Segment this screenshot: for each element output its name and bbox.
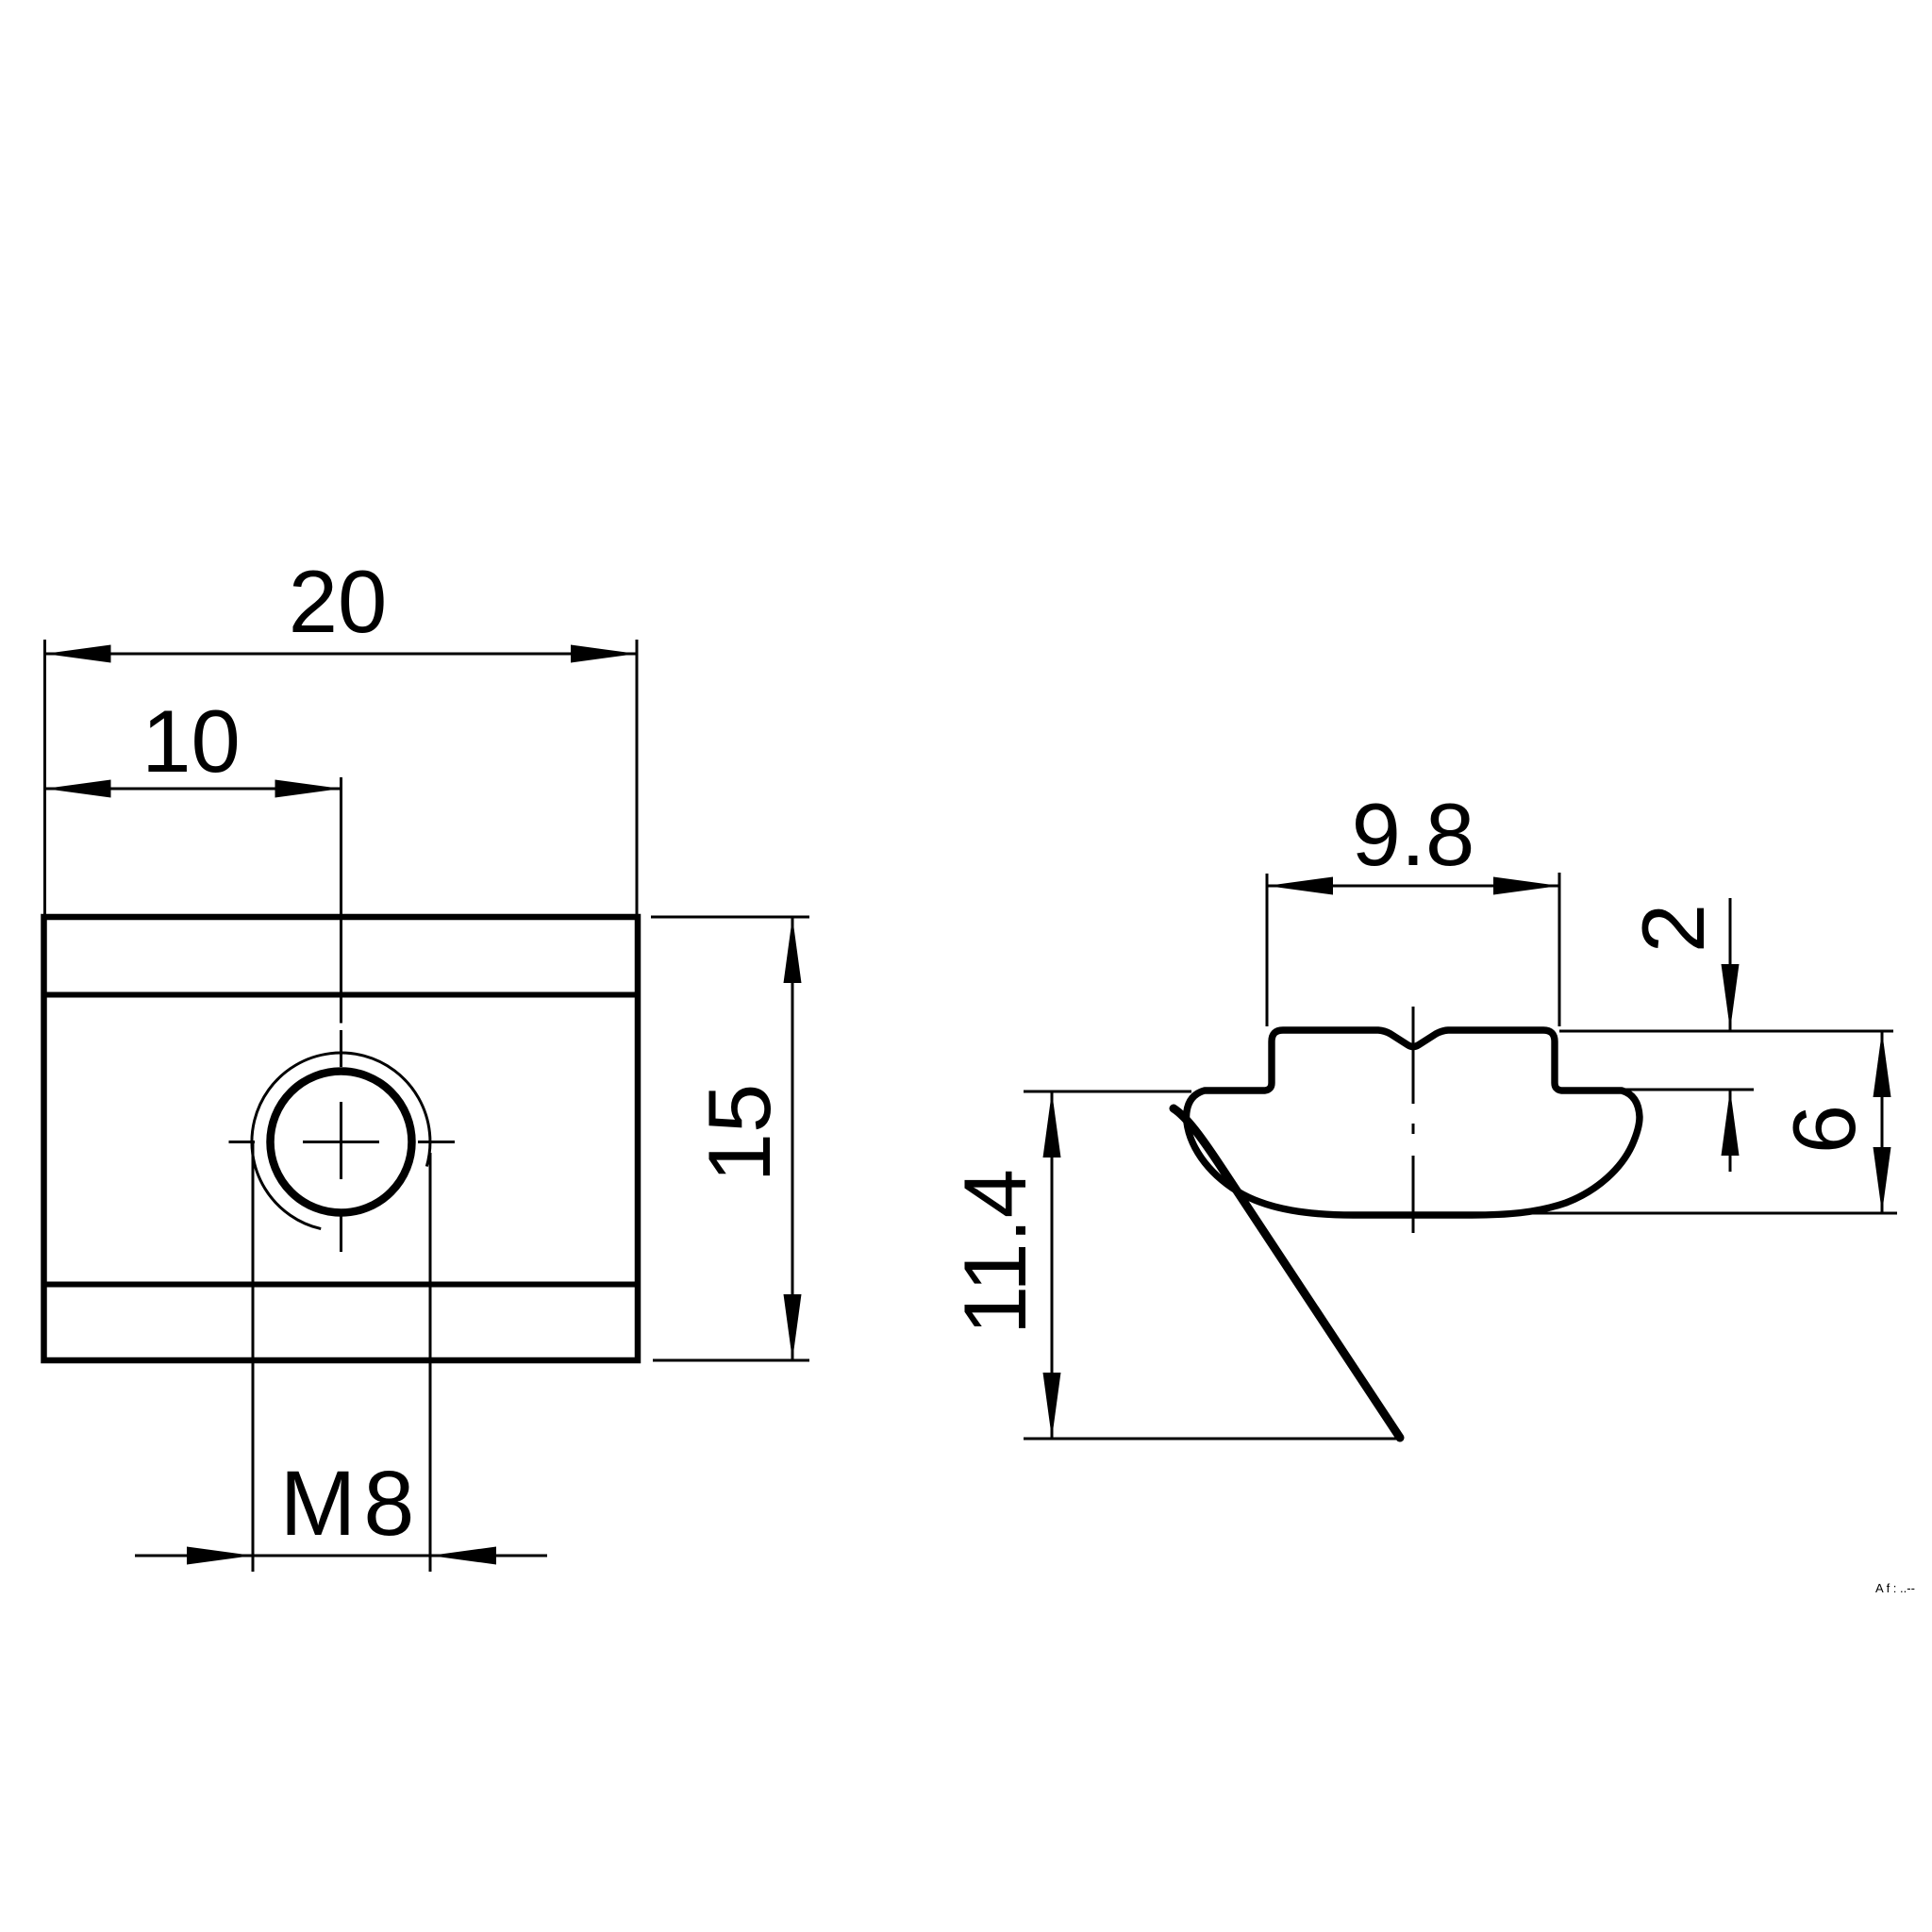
svg-text:M8: M8 <box>280 1452 423 1555</box>
svg-text:6: 6 <box>1774 1105 1874 1154</box>
svg-text:20: 20 <box>289 552 388 651</box>
dim 20: extension lines <box>45 640 638 917</box>
arrow 11.4 up <box>1043 1091 1061 1158</box>
dimension texts left view <box>142 552 789 1555</box>
tapped hole M8: thread crest arc (thin, 3/4 circle) <box>252 1053 430 1229</box>
dim 11.4: dimension line <box>1051 1091 1054 1439</box>
hole horizontal centerline <box>229 1141 456 1143</box>
arrow 15 up <box>784 917 802 983</box>
dim 9.8: dimension line <box>1267 885 1559 888</box>
dim 15: dimension line <box>791 917 794 1360</box>
arrow 6 down <box>1874 1147 1891 1213</box>
arrow M8 left-pointing-right <box>187 1547 253 1565</box>
spring leaf (ball spring) <box>1174 1108 1400 1438</box>
tapped hole M8: minor circle (thick) <box>271 1072 412 1213</box>
arrowheads left view <box>45 645 802 1565</box>
arrow 10 left <box>45 780 111 798</box>
svg-text:A f : ..--: A f : ..-- <box>1875 1581 1915 1595</box>
hole vertical centerline <box>340 777 342 1252</box>
arrowheads right view <box>1043 877 1891 1440</box>
arrow 9.8 right <box>1493 877 1559 895</box>
arrow 10 right <box>275 780 341 798</box>
dim 6: bottom extension line <box>1486 1212 1897 1215</box>
dim 2/6: top extension line (flange top level) <box>1559 1030 1893 1033</box>
nut rail edge line upper <box>44 992 639 998</box>
arrow 6 up <box>1874 1031 1891 1097</box>
svg-text:15: 15 <box>690 1084 789 1183</box>
dim 11.4: extension lines <box>1024 1091 1404 1439</box>
dim 9.8: extension lines <box>1267 873 1559 1026</box>
dim 20: dimension line <box>45 653 638 656</box>
svg-text:9.8: 9.8 <box>1352 785 1475 884</box>
nut rail edge line lower <box>44 1282 639 1288</box>
arrow 20 right <box>571 645 637 663</box>
dim 2: lower leg <box>1729 1090 1732 1172</box>
nut body outline (top view rectangle) <box>44 917 639 1360</box>
dimension texts right view <box>945 785 1874 1335</box>
dim 6: dimension line <box>1881 1031 1884 1213</box>
arrow 2 down <box>1722 964 1740 1030</box>
svg-text:2: 2 <box>1624 904 1723 953</box>
dim 15: extension lines <box>651 917 809 1360</box>
profile vertical centerline <box>1412 1007 1415 1233</box>
arrow 15 down <box>784 1294 802 1360</box>
dim M8: dimension line <box>135 1555 547 1557</box>
arrow 2 up <box>1722 1090 1740 1156</box>
arrow 9.8 left <box>1267 877 1333 895</box>
T-nut profile outline <box>1187 1030 1641 1215</box>
dim M8: extension lines <box>253 1143 430 1572</box>
arrow 20 left <box>45 645 111 663</box>
dim 2: lower extension line (body top level) <box>1621 1089 1754 1091</box>
svg-text:11.4: 11.4 <box>945 1169 1044 1335</box>
svg-text:10: 10 <box>142 691 241 791</box>
arrow M8 right-pointing-left <box>430 1547 496 1565</box>
arrow 11.4 down <box>1043 1373 1061 1439</box>
dim 10: dimension line <box>45 788 341 791</box>
dim 2: upper leg <box>1729 898 1732 1030</box>
